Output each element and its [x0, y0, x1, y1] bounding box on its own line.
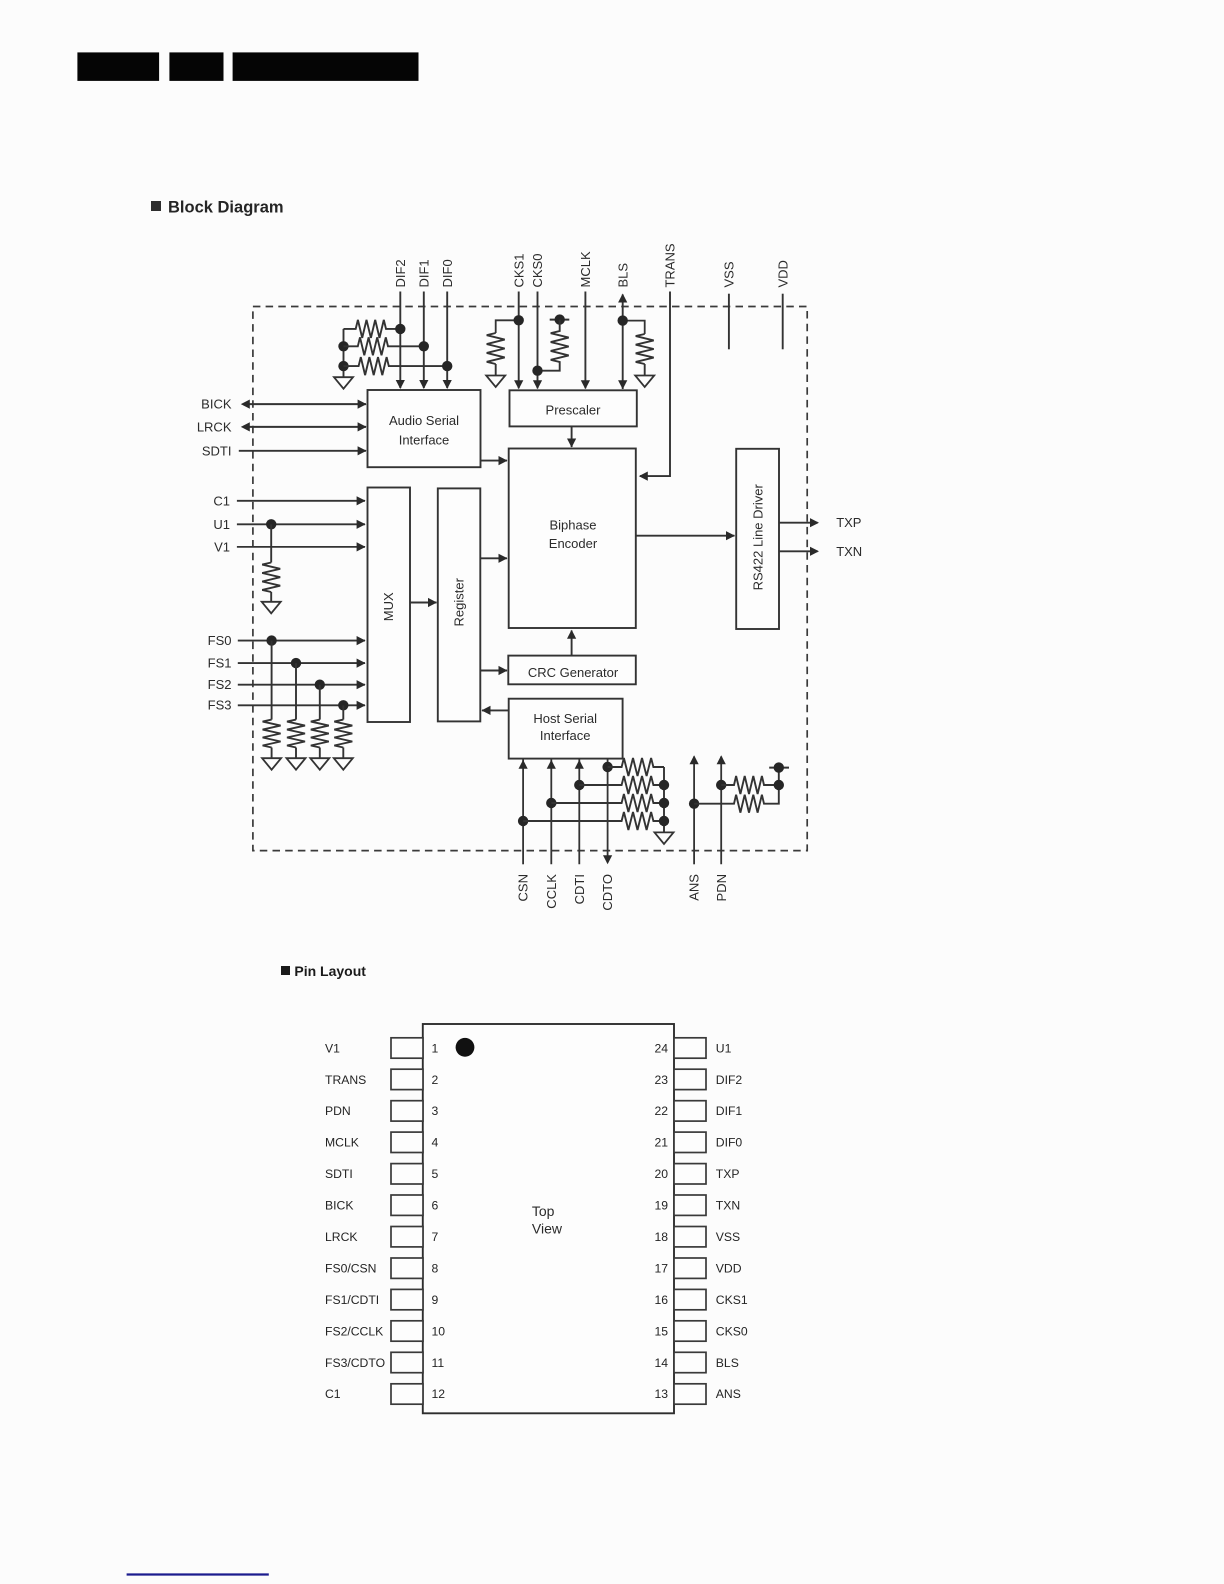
wire Audio Serial Interface to Biphase Encoder: [481, 456, 508, 465]
wire resistor to ground: [270, 592, 272, 602]
svg-text:BLS: BLS: [716, 1356, 739, 1370]
pin 20 TXP: [654, 1164, 739, 1184]
block: Prescaler: [510, 390, 637, 426]
ground (U1): [262, 602, 281, 614]
pin 10 FS2/CCLK: [325, 1321, 445, 1341]
svg-text:TXP: TXP: [836, 515, 861, 530]
pin 14 BLS: [654, 1352, 738, 1372]
svg-text:Biphase: Biphase: [550, 518, 597, 533]
svg-text:FS1: FS1: [208, 655, 232, 670]
resistor (BLS pull-down): [636, 334, 654, 364]
svg-text:5: 5: [432, 1167, 439, 1181]
node C1 : label and input wire: [213, 493, 365, 508]
node DIF1 : pin label and wire into block: [416, 259, 431, 389]
junction ladder-CDTI: [659, 780, 669, 790]
pin 7 LRCK: [325, 1227, 439, 1247]
redacted header bar 2: [169, 52, 223, 81]
block: MUX: [368, 488, 411, 723]
ground (FS1): [287, 758, 306, 770]
ground (FS0): [262, 758, 281, 770]
svg-text:FS3: FS3: [208, 698, 232, 713]
ground (BLS): [635, 376, 654, 388]
svg-text:FS2: FS2: [208, 677, 232, 692]
svg-text:TXN: TXN: [716, 1199, 740, 1213]
svg-text:21: 21: [654, 1136, 668, 1150]
svg-text:11: 11: [432, 1356, 445, 1370]
node U1 : label and input wire: [213, 517, 365, 532]
svg-text:VSS: VSS: [716, 1230, 740, 1244]
resistor (U1 pull-down): [262, 563, 280, 593]
svg-text:ANS: ANS: [716, 1387, 741, 1401]
junction FS2: [315, 680, 325, 690]
svg-text:Pin Layout: Pin Layout: [294, 963, 366, 979]
pin 16 CKS1: [654, 1289, 747, 1309]
junction BLS: [618, 315, 628, 325]
wire Host Serial Interface to Register: [482, 706, 509, 715]
svg-text:9: 9: [432, 1293, 439, 1307]
svg-text:LRCK: LRCK: [197, 419, 232, 434]
junction FS3: [338, 700, 348, 710]
svg-text:CCLK: CCLK: [544, 874, 559, 909]
svg-text:15: 15: [654, 1324, 668, 1338]
node LRCK : label and bidirectional wire: [197, 419, 367, 434]
pin 3 PDN: [325, 1101, 439, 1121]
junction ANS: [689, 799, 699, 809]
node VDD : power pin stub: [775, 260, 790, 349]
junction DIF0: [442, 361, 452, 371]
wire FS2 to pull-down: [319, 685, 321, 720]
svg-text:TRANS: TRANS: [325, 1073, 366, 1087]
resistor (FS0 pull-down): [263, 720, 281, 748]
junction at supply stub: [774, 762, 784, 772]
pin 18 VSS: [654, 1227, 740, 1247]
svg-text:1: 1: [432, 1041, 439, 1055]
redacted header bar 1: [77, 52, 159, 81]
block: Host Serial Interface: [509, 699, 623, 759]
pin 1 index dot: [456, 1038, 475, 1057]
svg-text:Audio Serial: Audio Serial: [389, 413, 459, 428]
resistor (CDTO pull): [608, 758, 664, 776]
node CSN : wire and label: [516, 760, 531, 902]
node DIF2 : pin label and wire into block: [393, 259, 408, 389]
svg-text:16: 16: [654, 1293, 668, 1307]
svg-text:FS3/CDTO: FS3/CDTO: [325, 1356, 385, 1370]
svg-text:RS422 Line Driver: RS422 Line Driver: [750, 484, 765, 591]
wire Register to CRC Generator: [480, 666, 507, 675]
resistor (CKS0 pull-up): [538, 320, 569, 371]
svg-text:CKS0: CKS0: [530, 254, 545, 288]
footer rule (blue): [127, 1573, 269, 1575]
node CDTI : wire and label: [572, 760, 587, 905]
junction on DIF0 pull wire: [338, 361, 348, 371]
pin 6 BICK: [325, 1195, 439, 1215]
node FS1 : label and input wire: [208, 655, 366, 670]
svg-text:3: 3: [432, 1104, 439, 1118]
resistor (DIF1 pull-down): [344, 337, 424, 355]
svg-text:VDD: VDD: [716, 1262, 742, 1276]
svg-text:Prescaler: Prescaler: [546, 403, 602, 418]
resistor (CCLK pull): [551, 794, 664, 812]
svg-text:LRCK: LRCK: [325, 1230, 358, 1244]
svg-text:BICK: BICK: [325, 1199, 353, 1213]
svg-text:Interface: Interface: [540, 728, 591, 743]
junction on DIF1 pull wire: [338, 341, 348, 351]
svg-text:DIF0: DIF0: [440, 259, 455, 287]
junction CDTI: [574, 780, 584, 790]
node BLS : bidirectional pin wire: [615, 263, 630, 390]
pin 13 ANS: [654, 1384, 740, 1404]
svg-text:FS0/CSN: FS0/CSN: [325, 1262, 376, 1276]
svg-text:12: 12: [432, 1387, 446, 1401]
ground (DIF network): [334, 377, 353, 389]
ground (CKS1): [486, 376, 505, 388]
node CKS0 : pin label and wire into block: [530, 254, 545, 390]
svg-text:24: 24: [654, 1041, 668, 1055]
node FS3 : label and input wire: [208, 698, 366, 713]
node BICK : label and bidirectional wire: [201, 397, 366, 412]
pin 8 FS0/CSN: [325, 1258, 439, 1278]
svg-text:2: 2: [432, 1073, 439, 1087]
resistor (CDTI pull): [579, 776, 664, 794]
wire FS0 to pull-down: [271, 641, 273, 720]
node TRANS : pin label and wire into Biphase Encoder: [639, 243, 678, 481]
pin 4 MCLK: [325, 1132, 439, 1152]
junction ladder-CSN: [659, 816, 669, 826]
node V1 : label and input wire: [214, 539, 366, 554]
svg-text:PDN: PDN: [714, 874, 729, 901]
junction CKS1: [514, 315, 524, 325]
wire FS1 to pull-down: [295, 663, 297, 720]
svg-text:CDTI: CDTI: [572, 874, 587, 904]
node ANS : wire and label: [687, 755, 702, 900]
svg-text:ANS: ANS: [687, 874, 702, 901]
svg-text:14: 14: [654, 1356, 668, 1370]
svg-text:U1: U1: [213, 517, 230, 532]
svg-text:VSS: VSS: [722, 261, 737, 287]
pin 21 DIF0: [654, 1132, 742, 1152]
wire resistor to ground: [342, 748, 344, 759]
svg-text:23: 23: [654, 1073, 668, 1087]
svg-text:U1: U1: [716, 1041, 732, 1055]
pin 12 C1: [325, 1384, 445, 1404]
junction CCLK: [546, 798, 556, 808]
junction DIF2: [395, 324, 405, 334]
svg-text:Interface: Interface: [399, 433, 450, 448]
pin 22 DIF1: [654, 1101, 742, 1121]
junction CSN: [518, 816, 528, 826]
pin 1 V1: [325, 1038, 439, 1058]
pin 11 FS3/CDTO: [325, 1352, 444, 1372]
ground (FS2): [310, 758, 329, 770]
svg-text:7: 7: [432, 1230, 439, 1244]
ground (host port pulls): [655, 832, 674, 844]
svg-text:Register: Register: [452, 577, 467, 626]
pin 15 CKS0: [654, 1321, 747, 1341]
resistor (FS1 pull-down): [287, 720, 305, 748]
svg-text:DIF1: DIF1: [716, 1104, 743, 1118]
wire resistor to ground: [319, 748, 321, 759]
node FS0 : label and input wire: [208, 633, 366, 648]
svg-text:10: 10: [432, 1324, 446, 1338]
svg-text:DIF2: DIF2: [393, 259, 408, 287]
node TXN : output wire and label: [779, 544, 862, 559]
node DIF0 : pin label and wire into block: [440, 259, 455, 389]
svg-text:17: 17: [654, 1262, 668, 1276]
svg-text:6: 6: [432, 1199, 439, 1213]
pin 19 TXN: [654, 1195, 740, 1215]
svg-text:CRC Generator: CRC Generator: [528, 665, 619, 680]
svg-text:BICK: BICK: [201, 397, 232, 412]
node MCLK : pin label and wire into block: [578, 251, 593, 389]
svg-text:SDTI: SDTI: [325, 1167, 353, 1181]
junction pull-up node: [774, 780, 784, 790]
resistor (CSN pull): [523, 812, 664, 830]
svg-text:V1: V1: [214, 539, 230, 554]
svg-text:TXP: TXP: [716, 1167, 740, 1181]
junction CDTO: [602, 762, 612, 772]
wire Biphase Encoder to RS422 Line Driver: [636, 531, 735, 540]
svg-text:20: 20: [654, 1167, 668, 1181]
svg-text:BLS: BLS: [615, 263, 630, 288]
heading: Pin Layout: [281, 963, 366, 979]
svg-text:C1: C1: [325, 1387, 341, 1401]
pin 24 U1: [654, 1038, 731, 1058]
redacted header bar 3: [233, 52, 419, 81]
wire resistor to ground: [295, 748, 297, 759]
node CKS1 : pin label and wire into block: [511, 254, 526, 390]
block: RS422 Line Driver: [736, 449, 779, 629]
wire Register to Biphase Encoder: [480, 554, 507, 563]
node VSS : power pin stub: [722, 261, 737, 349]
wire CKS1 to pull-down: [496, 320, 519, 333]
svg-text:VDD: VDD: [775, 260, 790, 287]
svg-text:View: View: [532, 1220, 563, 1236]
svg-text:CKS1: CKS1: [511, 254, 526, 288]
wire resistor to ground: [644, 364, 646, 376]
pin 2 TRANS: [325, 1069, 439, 1089]
resistor (FS3 pull-down): [334, 720, 352, 748]
svg-text:MCLK: MCLK: [325, 1136, 359, 1150]
resistor (PDN pull-up): [721, 776, 779, 794]
svg-text:TRANS: TRANS: [663, 243, 678, 287]
wire Prescaler to Biphase Encoder: [567, 426, 576, 447]
svg-text:22: 22: [654, 1104, 668, 1118]
wire BLS to pull-down: [623, 321, 645, 334]
svg-text:8: 8: [432, 1262, 439, 1276]
svg-text:19: 19: [654, 1199, 668, 1213]
ground (FS3): [334, 758, 353, 770]
node CDTO : output wire and label: [600, 759, 615, 911]
junction at supply stub: [555, 314, 565, 324]
junction DIF1: [419, 341, 429, 351]
pin 17 VDD: [654, 1258, 741, 1278]
svg-text:Top: Top: [532, 1203, 555, 1219]
svg-text:DIF2: DIF2: [716, 1073, 743, 1087]
block: Register: [438, 488, 481, 721]
wire: DIF pull-down bus (left vertical): [343, 329, 345, 377]
svg-text:CKS1: CKS1: [716, 1293, 748, 1307]
junction FS1: [291, 658, 301, 668]
svg-text:TXN: TXN: [836, 544, 862, 559]
heading: Block Diagram: [151, 199, 284, 217]
supply stub (CKS0 pull-up): [550, 319, 570, 321]
svg-text:13: 13: [654, 1387, 668, 1401]
wire resistor to ground: [271, 748, 273, 759]
wire pull ladder common node: [663, 767, 665, 832]
svg-text:FS0: FS0: [208, 633, 232, 648]
svg-text:CSN: CSN: [516, 874, 531, 901]
wire CRC Generator to Biphase Encoder: [567, 630, 576, 656]
pin 5 SDTI: [325, 1164, 439, 1184]
resistor (DIF0 pull-down): [344, 357, 448, 375]
junction FS0: [266, 635, 276, 645]
block: Biphase Encoder: [509, 449, 636, 629]
svg-text:SDTI: SDTI: [202, 443, 232, 458]
svg-text:18: 18: [654, 1230, 668, 1244]
pin 9 FS1/CDTI: [325, 1289, 439, 1309]
block: Audio Serial Interface: [368, 390, 481, 467]
svg-text:Encoder: Encoder: [549, 536, 598, 551]
wire FS3 to pull-down: [342, 705, 344, 719]
junction PDN: [716, 780, 726, 790]
svg-text:Block Diagram: Block Diagram: [168, 199, 284, 217]
svg-text:C1: C1: [213, 493, 230, 508]
node PDN : wire and label: [714, 755, 729, 901]
svg-text:PDN: PDN: [325, 1104, 351, 1118]
svg-text:Host Serial: Host Serial: [533, 711, 597, 726]
svg-text:4: 4: [432, 1136, 439, 1150]
svg-text:DIF1: DIF1: [416, 259, 431, 287]
wire resistor to ground: [495, 364, 497, 376]
wire U1 to pull-down: [270, 524, 272, 562]
junction ladder-CCLK: [659, 798, 669, 808]
wire MUX to Register: [410, 598, 437, 607]
node FS2 : label and input wire: [208, 677, 366, 692]
pin 23 DIF2: [654, 1069, 742, 1089]
junction U1: [266, 519, 276, 529]
chip boundary (dashed): [253, 307, 807, 851]
svg-text:MUX: MUX: [381, 592, 396, 621]
junction CKS0: [532, 366, 542, 376]
svg-text:MCLK: MCLK: [578, 251, 593, 287]
svg-text:CKS0: CKS0: [716, 1324, 748, 1338]
supply stub (ANS/PDN pull-ups): [769, 767, 789, 769]
IC package body (Top View): [423, 1024, 674, 1413]
svg-text:CDTO: CDTO: [600, 874, 615, 911]
resistor (ANS pull-up): [694, 785, 779, 813]
resistor (CKS1 pull-down): [487, 333, 505, 364]
resistor (FS2 pull-down): [311, 720, 329, 748]
svg-text:V1: V1: [325, 1041, 340, 1055]
wire pull-up common node to supply: [778, 768, 780, 785]
svg-text:FS2/CCLK: FS2/CCLK: [325, 1324, 383, 1338]
node CCLK : wire and label: [544, 760, 559, 909]
svg-text:FS1/CDTI: FS1/CDTI: [325, 1293, 379, 1307]
node TXP : output wire and label: [779, 515, 861, 530]
resistor (DIF2 pull-down): [344, 320, 401, 338]
svg-text:DIF0: DIF0: [716, 1136, 743, 1150]
block: CRC Generator: [508, 656, 636, 685]
node SDTI : label and input wire: [202, 443, 367, 458]
